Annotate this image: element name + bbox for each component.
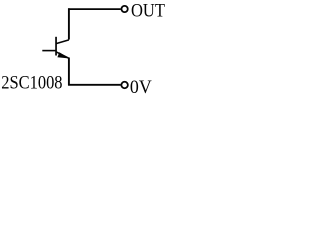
svg-text:OUT: OUT: [131, 0, 165, 21]
svg-text:0V: 0V: [130, 77, 153, 95]
svg-text:2SC1008: 2SC1008: [1, 71, 62, 92]
